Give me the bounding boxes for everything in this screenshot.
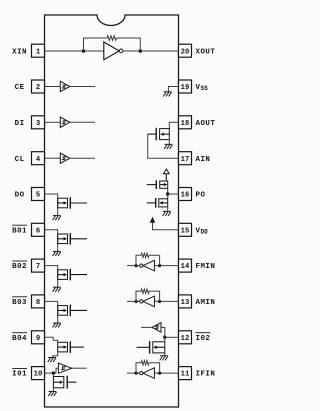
- wire inverter output to XOUT pin20: [123, 50, 179, 52]
- svg-text:FMIN: FMIN: [196, 263, 216, 271]
- op-amp AMIN inverting amplifier: [140, 296, 155, 307]
- svg-text:8: 8: [36, 299, 40, 307]
- op-amp IFIN inverting amplifier: [140, 368, 155, 379]
- power VDD symbol (open triangle): [163, 169, 169, 181]
- wire AMIN amp to pin: [154, 300, 178, 302]
- svg-text:B04: B04: [12, 335, 27, 343]
- ground (B03): [53, 323, 61, 328]
- svg-text:IFIN: IFIN: [196, 371, 216, 379]
- wire I01 source to ground: [52, 388, 54, 392]
- wire I02 source to ground: [164, 353, 166, 356]
- label DI (pin 3): [15, 120, 25, 128]
- node AMIN input junction: [134, 300, 137, 303]
- svg-text:B01: B01: [12, 227, 27, 235]
- wire PO node: [167, 188, 169, 199]
- ground (I01): [48, 391, 56, 396]
- wire B04 source to ground (jogged): [53, 352, 58, 358]
- transistor Q AOUT NMOS: [148, 128, 170, 141]
- pin 16 box: [179, 188, 192, 201]
- wire VSS pin to ground: [168, 87, 178, 92]
- svg-text:16: 16: [181, 192, 190, 200]
- schmitt buffer CL: [60, 153, 70, 163]
- wire AOUT source to ground: [168, 140, 170, 145]
- wire B03 pin to transistor: [45, 301, 58, 323]
- wire I01 to input buffer: [56, 368, 58, 373]
- label VSS (pin 19): [196, 84, 209, 92]
- svg-text:19: 19: [181, 84, 190, 92]
- svg-text:DI: DI: [15, 120, 25, 128]
- svg-text:20: 20: [181, 48, 190, 56]
- schmitt buffer I01 input: [58, 363, 71, 373]
- pin 5 box: [32, 188, 45, 201]
- label XOUT (pin 20): [196, 48, 216, 56]
- feedback resistor (FMIN amp): [136, 255, 141, 265]
- wire CL pin to buffer: [45, 157, 61, 159]
- label PO (pin 16): [196, 192, 206, 200]
- wire PO NMOS source to ground: [167, 207, 169, 212]
- wire CE buffer output: [70, 86, 95, 88]
- node I02 junction: [163, 336, 166, 339]
- svg-text:SS: SS: [201, 85, 209, 92]
- schmitt buffer I02 input: [152, 323, 161, 333]
- label B02 (pin 7): [12, 261, 27, 271]
- feedback resistor (AMIN amp): [136, 291, 141, 301]
- label B01 (pin 6): [12, 225, 27, 235]
- transistor Q B01 open-drain NMOS: [58, 233, 87, 245]
- svg-text:B03: B03: [12, 299, 27, 307]
- wire AOUT pin to transistor drain: [169, 122, 178, 128]
- svg-text:CE: CE: [15, 84, 25, 92]
- ground (B01): [53, 251, 61, 256]
- feedback resistor Rf (oscillator): [84, 38, 108, 51]
- wire I02 buffer output: [141, 326, 152, 328]
- wire VDD pin to supply arrow: [153, 223, 179, 230]
- node PO junction: [166, 192, 169, 195]
- svg-text:B02: B02: [12, 263, 27, 271]
- label CE (pin 2): [15, 84, 25, 92]
- pin 12 box: [179, 331, 192, 344]
- pin 18 box: [179, 116, 192, 129]
- pin 3 box: [32, 116, 45, 129]
- svg-text:17: 17: [181, 156, 190, 164]
- label DO (pin 5): [15, 192, 25, 200]
- svg-text:2: 2: [36, 84, 40, 92]
- pin 6 box: [32, 223, 45, 236]
- transistor Q B03 open-drain NMOS: [58, 305, 87, 317]
- transistor Q DO open-drain NMOS: [58, 197, 87, 209]
- wire I02 to input buffer: [161, 327, 165, 337]
- pin 8 box: [32, 295, 45, 308]
- pin 2 box: [32, 80, 45, 93]
- pin 20 box: [179, 44, 192, 57]
- node IFIN pin-side junction: [158, 371, 161, 374]
- wire PO to pin: [168, 193, 179, 195]
- svg-text:15: 15: [181, 227, 190, 235]
- label I02 (pin 12): [195, 333, 210, 343]
- wire B02 pin to transistor: [45, 266, 58, 288]
- pin 19 box: [179, 80, 192, 93]
- svg-text:18: 18: [181, 120, 190, 128]
- wire I01 pin: [45, 372, 57, 374]
- pin 9 box: [32, 331, 45, 344]
- ground (VSS): [163, 92, 171, 97]
- pin 15 box: [179, 223, 192, 236]
- node I01 junction: [52, 371, 55, 374]
- svg-text:DD: DD: [201, 228, 209, 235]
- ground (DO): [53, 216, 61, 221]
- transistor Q PO NMOS: [147, 198, 168, 208]
- svg-text:3: 3: [36, 120, 40, 128]
- svg-text:13: 13: [181, 299, 190, 307]
- svg-text:I01: I01: [12, 371, 27, 379]
- svg-text:7: 7: [36, 263, 40, 271]
- wire B04 pin to transistor (jogged): [45, 337, 58, 342]
- IC package outline with pin-1 index notch: [45, 15, 179, 407]
- label CL (pin 4): [15, 156, 25, 164]
- ground (I02): [160, 356, 168, 361]
- svg-text:I02: I02: [196, 335, 211, 343]
- op-amp FMIN inverting amplifier: [140, 260, 155, 271]
- node XOUT junction: [139, 49, 143, 53]
- transistor Q B02 open-drain NMOS: [58, 269, 87, 281]
- wire CL buffer output: [70, 157, 95, 159]
- label FMIN (pin 14): [196, 263, 216, 271]
- wire IFIN internal stub: [127, 372, 140, 374]
- svg-text:AOUT: AOUT: [196, 120, 216, 128]
- ground (B04): [48, 357, 56, 362]
- power VDD supply arrow (solid): [150, 217, 155, 223]
- label AOUT (pin 18): [196, 120, 216, 128]
- svg-text:5: 5: [36, 192, 40, 200]
- op-amp U1 oscillator inverter: [104, 42, 123, 60]
- wire AMIN internal stub: [127, 300, 140, 302]
- label B04 (pin 9): [12, 333, 27, 343]
- wire I01 to pulldown transistor: [52, 373, 54, 376]
- pin 4 box: [32, 152, 45, 165]
- ground (AOUT): [164, 144, 172, 149]
- label B03 (pin 8): [12, 297, 27, 307]
- svg-text:14: 14: [181, 263, 190, 271]
- label VDD (pin 15): [196, 227, 209, 235]
- pin 14 box: [179, 259, 192, 272]
- svg-text:AIN: AIN: [196, 156, 211, 164]
- node FMIN pin-side junction: [158, 264, 161, 267]
- pin 10 box: [32, 367, 45, 380]
- svg-text:XIN: XIN: [12, 48, 27, 56]
- svg-text:12: 12: [181, 335, 190, 343]
- svg-text:AMIN: AMIN: [196, 299, 216, 307]
- wire DO pin to transistor: [45, 194, 58, 216]
- node XIN junction: [82, 49, 86, 53]
- pin 13 box: [179, 295, 192, 308]
- pin 11 box: [179, 367, 192, 380]
- schmitt buffer DI: [60, 117, 70, 127]
- label I01 (pin 10): [12, 369, 27, 379]
- transistor Q I02 open-drain NMOS: [137, 341, 165, 354]
- svg-text:XOUT: XOUT: [196, 48, 216, 56]
- transistor Q PO PMOS: [147, 180, 168, 189]
- node IFIN input junction: [134, 371, 137, 374]
- wire CE pin to buffer: [45, 86, 61, 88]
- wire I01 buffer output: [72, 367, 87, 369]
- wire FMIN amp to pin: [154, 265, 178, 267]
- svg-text:6: 6: [36, 227, 40, 235]
- feedback resistor (IFIN amp): [136, 363, 141, 373]
- transistor Q B04 open-drain NMOS: [58, 341, 84, 353]
- svg-text:DO: DO: [15, 192, 25, 200]
- ground (B02): [53, 287, 61, 292]
- svg-text:PO: PO: [196, 192, 206, 200]
- pin 17 box: [179, 152, 192, 165]
- svg-text:CL: CL: [15, 156, 25, 164]
- label AIN (pin 17): [196, 156, 211, 164]
- wire DI buffer output: [70, 121, 95, 123]
- wire IFIN amp to pin: [154, 372, 178, 374]
- label IFIN (pin 11): [196, 371, 216, 379]
- svg-text:10: 10: [34, 371, 43, 379]
- wire XIN pin1 to inverter input: [45, 50, 104, 52]
- node FMIN input junction: [134, 264, 137, 267]
- svg-text:11: 11: [181, 371, 190, 379]
- wire B01 pin to transistor: [45, 230, 58, 252]
- schmitt buffer CE: [60, 81, 70, 91]
- svg-text:1: 1: [36, 48, 41, 56]
- wire I02 pin: [165, 336, 179, 338]
- wire DI pin to buffer: [45, 121, 61, 123]
- wire FMIN internal stub: [127, 265, 140, 267]
- label AMIN (pin 13): [196, 299, 216, 307]
- wire I02 to pulldown transistor: [164, 337, 166, 342]
- label XIN (pin 1): [12, 48, 27, 56]
- wire AIN pin to gate: [148, 134, 179, 158]
- svg-text:9: 9: [36, 335, 40, 343]
- pin 1 box: [32, 44, 45, 57]
- pin 7 box: [32, 259, 45, 272]
- ground (PO): [163, 211, 171, 216]
- svg-text:4: 4: [36, 156, 41, 164]
- transistor Q I01 open-drain NMOS: [53, 376, 76, 389]
- node AMIN pin-side junction: [158, 300, 161, 303]
